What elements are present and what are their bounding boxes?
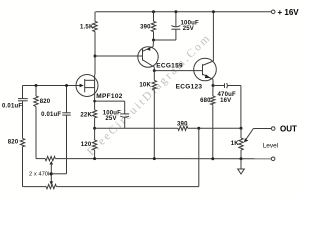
capacitor 0.01uF left: [18, 86, 28, 139]
junction dot feedback/bottom branch: [197, 127, 200, 130]
svg-text:0.01uF: 0.01uF: [2, 104, 22, 110]
svg-text:680: 680: [200, 98, 211, 104]
svg-text:22K: 22K: [80, 112, 92, 118]
junction dot gate/cap2: [65, 84, 68, 87]
svg-text:OUT: OUT: [280, 125, 297, 134]
capacitor 470uF 16V: [213, 83, 241, 128]
label 0.01uF right: [41, 112, 61, 118]
node A dot: [94, 55, 97, 58]
wire down to bottom rail: [198, 128, 200, 186]
resistor 680: [212, 86, 214, 96]
wire feedback left: [95, 127, 178, 129]
junction top rail / 390: [152, 10, 155, 13]
svg-text:2 x 470k: 2 x 470k: [29, 172, 51, 178]
svg-text:Level: Level: [263, 142, 279, 149]
svg-text:1K: 1K: [231, 141, 240, 147]
ground rail: [36, 158, 45, 160]
resistor 820 lower left: [20, 138, 24, 146]
source column: wire from JFET source: [94, 97, 96, 110]
bypass wire top: [95, 100, 125, 102]
wire OUT: [253, 128, 271, 130]
junction dot wiper: [50, 172, 53, 175]
wire wiper to cap column: [51, 173, 66, 175]
label 390 feedback: [177, 121, 188, 127]
wire feedback right: [188, 127, 241, 129]
terminal ground: [271, 157, 275, 161]
wire cap2 column: [66, 115, 68, 174]
wire node B to ECG123 base: [154, 70, 202, 72]
label ECG159: [156, 63, 183, 70]
svg-text:ECG123: ECG123: [176, 84, 203, 91]
transistor Q2 ECG123: [194, 12, 217, 86]
label 2 x 470k: [29, 172, 51, 178]
svg-text:25V: 25V: [105, 116, 116, 122]
resistor 10K: [153, 71, 155, 81]
ground rail continued: [55, 158, 271, 160]
label 820 lower: [8, 140, 19, 146]
resistor 1.5K: [93, 21, 97, 31]
capacitor 0.01uF right: [62, 86, 70, 116]
pot wiper: [246, 129, 254, 141]
svg-text:MPF102: MPF102: [96, 93, 122, 100]
svg-text:1.5K: 1.5K: [80, 25, 94, 31]
svg-text:0.01uF: 0.01uF: [41, 112, 61, 118]
junction dot emitter node ECG123: [212, 84, 215, 87]
label 820 upper: [40, 99, 51, 105]
wire V+ down to 1.5K: [94, 12, 96, 22]
wire emitter node ECG159: [154, 39, 176, 41]
junction dot node B: [153, 69, 156, 72]
svg-text:820: 820: [8, 140, 19, 146]
resistor 390 feedback: [178, 126, 188, 130]
wire top rail: [96, 11, 272, 13]
junction dot gate/820: [35, 84, 38, 87]
svg-text:820: 820: [40, 99, 51, 105]
label 1.5K: [80, 25, 94, 31]
watermark: [85, 32, 214, 159]
terminal +16V: [271, 10, 275, 14]
gate wire: [23, 85, 77, 87]
wire node A to ECG159 base: [95, 55, 143, 57]
junction dot emitter node: [152, 39, 155, 42]
resistor 470k lower: [46, 184, 56, 188]
label 0.01uF left: [2, 104, 22, 110]
ground symbol: [240, 159, 242, 169]
JFET U1 MPF102: [76, 75, 98, 97]
capacitor 100uF 25V top: [171, 12, 180, 40]
label 100uF 25V top: [181, 21, 199, 32]
label OUT: [280, 125, 297, 134]
label ECG123: [176, 84, 203, 91]
label 120: [81, 142, 92, 148]
rail junction dots: [93, 157, 96, 160]
wire 1.5K to node A: [94, 32, 96, 75]
label 10K: [139, 83, 151, 89]
wiper link column: [50, 161, 54, 165]
svg-text:390: 390: [177, 121, 188, 127]
junction top rail / ECG123 collector: [212, 10, 215, 13]
junction dot pot top: [240, 127, 243, 130]
capacitor 100uF 25V bypass: [120, 101, 129, 128]
potentiometer 1K: [240, 128, 242, 138]
svg-text:16V: 16V: [220, 98, 231, 104]
bottom rail: [23, 186, 47, 188]
svg-text:25V: 25V: [183, 26, 194, 32]
label MPF102: [96, 93, 122, 100]
label +16V: [278, 8, 300, 17]
transistor Q1 ECG159: [138, 40, 158, 71]
svg-text:10K: 10K: [139, 83, 151, 89]
resistor 22K: [92, 110, 96, 118]
resistor 820 upper: [35, 86, 37, 97]
junction dot bypass top: [93, 100, 96, 103]
label 1K: [231, 141, 240, 147]
resistor 120: [94, 128, 96, 140]
label Level: [263, 142, 279, 149]
terminal OUT: [271, 127, 275, 131]
svg-text:390: 390: [140, 25, 151, 31]
junction dot source node bottom: [93, 127, 96, 130]
svg-text:ECG159: ECG159: [156, 63, 183, 70]
label 390 top: [140, 25, 151, 31]
resistor 390 top: [153, 12, 155, 22]
svg-text:+ 16V: + 16V: [278, 8, 300, 17]
label 100uF 25V bypass: [103, 110, 121, 122]
svg-text:120: 120: [81, 142, 92, 148]
label 680: [200, 98, 211, 104]
svg-text:470uF: 470uF: [218, 92, 236, 98]
junction top rail / 100uF: [174, 10, 177, 13]
resistor 470k upper: [45, 156, 55, 160]
label 22K: [80, 112, 92, 118]
label 470uF 16V: [218, 92, 236, 104]
